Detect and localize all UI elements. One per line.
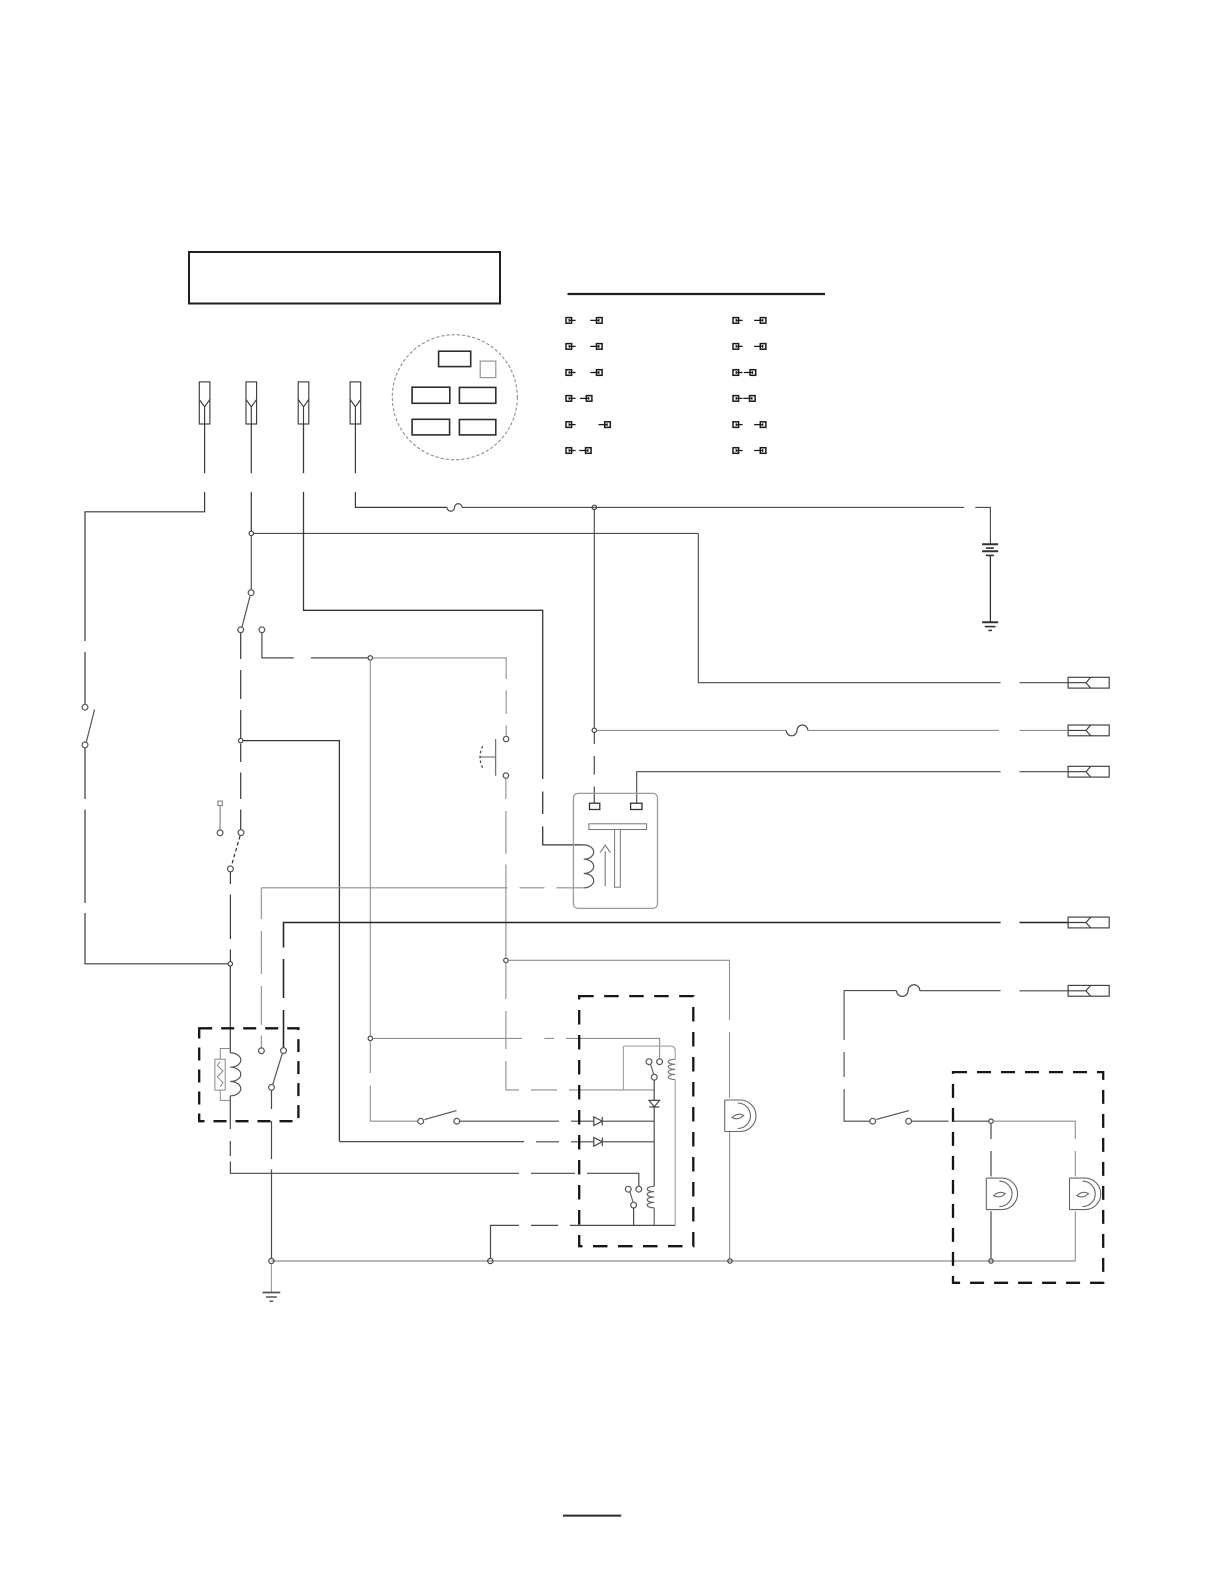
node start row xyxy=(368,656,372,660)
wire tee down to left lamp xyxy=(990,1123,992,1176)
node ground bus module xyxy=(488,1258,493,1263)
hourmeter lamp LAMP3 xyxy=(725,1100,756,1132)
relay RLY1 coil xyxy=(623,1046,675,1225)
battery BAT xyxy=(982,544,998,622)
wire riser to J1 xyxy=(698,533,1068,682)
node ground bus lamp xyxy=(989,1259,993,1263)
legend row 1 left terminal pair xyxy=(566,318,602,324)
wire hourmeter feed run xyxy=(508,960,729,1098)
diode D3 vertical xyxy=(649,1100,660,1107)
wire tap down to node J2 feed xyxy=(593,510,595,728)
wire pushbutton bottom down to hourmeter node xyxy=(505,778,507,957)
legend row 1 right terminal pair xyxy=(733,318,766,324)
wire left lamp to ground bus xyxy=(990,1211,992,1259)
legend row 4 left terminal pair xyxy=(566,396,592,402)
wire start row to pushbutton xyxy=(373,658,507,736)
connector pin CN3 xyxy=(298,382,309,424)
relay RLY2 coil xyxy=(647,1186,654,1225)
wire CB3 to headlamp switch xyxy=(844,991,896,1122)
legend row 5 right terminal pair xyxy=(733,422,766,428)
relay RLY2 contacts xyxy=(625,1186,641,1225)
solenoid coil xyxy=(584,845,594,888)
wire headlamp feed from J5 xyxy=(920,990,1068,992)
wire D2 to module junction xyxy=(602,1141,654,1143)
legend row 6 left terminal pair xyxy=(566,448,591,454)
solenoid motion arrow xyxy=(600,845,610,886)
connector pin CN4 xyxy=(350,382,361,424)
ground bus xyxy=(271,1260,1075,1262)
wire J3 run to solenoid right terminal xyxy=(637,772,1068,804)
node SW2 branch xyxy=(239,738,243,742)
PTO switch SW2 xyxy=(238,590,265,633)
legend row 5 left terminal pair xyxy=(566,422,610,428)
ignition switch terminal cavity B xyxy=(439,351,471,366)
start pushbutton PB xyxy=(480,736,509,778)
ground battery xyxy=(982,622,998,630)
connector terminal J4 xyxy=(1068,917,1109,928)
wire CN3 down-right to starter solenoid coil xyxy=(304,424,584,845)
diode D2 xyxy=(594,1138,603,1147)
seat switch SW4 xyxy=(418,1111,460,1125)
title box xyxy=(189,252,500,304)
legend row 2 left terminal pair xyxy=(566,344,602,350)
connector terminal J5 xyxy=(1068,985,1109,996)
node starter feed tap xyxy=(592,505,596,509)
page number underline xyxy=(563,1515,621,1517)
wire CN2 down to node xyxy=(250,424,252,531)
wire hourmeter to ground bus xyxy=(729,1132,731,1259)
diode D1 xyxy=(594,1117,603,1126)
node interlock feed xyxy=(368,1036,372,1040)
ground chassis xyxy=(263,1264,281,1302)
ignition switch terminal cavity L xyxy=(412,387,450,403)
relay RLY1 contacts xyxy=(646,1059,662,1080)
wire SW2 top contact feed from circle to start row xyxy=(262,633,368,658)
wire SW3 common down to bus node xyxy=(229,872,231,962)
wire node into module relay feed xyxy=(373,1038,660,1058)
fuel solenoid coil xyxy=(230,1053,241,1096)
wire solenoid coil low side run xyxy=(261,888,583,1048)
headlamp switch SW6 xyxy=(870,1111,912,1125)
wire run to J4 xyxy=(284,923,1069,1048)
wire tee to right lamp xyxy=(993,1121,1075,1176)
changeover switch SW3 xyxy=(217,801,244,872)
legend row 2 right terminal pair xyxy=(733,344,766,350)
circuit breaker CB3 xyxy=(897,985,920,997)
node ground bus left xyxy=(269,1258,274,1263)
connector terminal J3 xyxy=(1068,766,1109,777)
ignition switch connector circle xyxy=(392,335,517,460)
node fuel feed xyxy=(228,962,232,966)
legend row 3 right terminal pair xyxy=(733,370,756,376)
wire J2 run xyxy=(597,729,787,731)
solenoid plunger bar xyxy=(589,824,647,830)
headlamp box xyxy=(953,1072,1103,1283)
wire node down to seat switch xyxy=(370,1041,418,1122)
solenoid terminal S xyxy=(590,803,600,809)
circuit breaker CB1 xyxy=(447,504,462,512)
wire D1 to module junction xyxy=(602,1120,654,1122)
wire node to right riser xyxy=(254,532,699,534)
wire CN4 down-right battery feed xyxy=(355,424,447,507)
wire CB1 to battery xyxy=(462,507,990,544)
solenoid plunger stem xyxy=(615,830,621,888)
legend row 4 right terminal pair xyxy=(733,396,755,402)
legend row 6 right terminal pair xyxy=(733,448,766,454)
brake switch SW1 xyxy=(82,704,95,748)
wire D3 to relay RLY2 coil xyxy=(653,1107,655,1186)
wire node down to solenoid terminal xyxy=(593,733,595,804)
circuit breaker CB2 xyxy=(786,725,808,736)
wire node down to changeover switch SW3 xyxy=(240,744,242,830)
ignition switch terminal cavity M xyxy=(459,387,495,403)
interlock module box xyxy=(579,996,693,1246)
fuel solenoid resistor xyxy=(215,1049,230,1101)
fuel box switch SW5 xyxy=(259,1048,287,1091)
wire node down into module crank feed xyxy=(506,963,654,1090)
wire RLY1 armature to diode chain xyxy=(653,1080,655,1100)
ignition switch terminal cavity S xyxy=(412,419,450,435)
wire seat switch to diode D1 xyxy=(460,1120,594,1122)
legend heading rule xyxy=(568,293,826,295)
ignition switch terminal cavity G xyxy=(459,420,495,435)
wire brake switch to lower bus xyxy=(85,748,228,964)
wire fuel switch common to ground node xyxy=(271,1090,273,1258)
wire branch to dark riser x339 xyxy=(243,741,340,1142)
wire headlamp switch to lamps xyxy=(912,1120,989,1122)
wire right lamp to ground bus xyxy=(1074,1211,1076,1261)
fuel solenoid box xyxy=(199,1028,298,1121)
connector pin CN1 xyxy=(199,382,210,424)
node ground bus hourmeter xyxy=(728,1259,732,1263)
node J2 feed xyxy=(592,728,596,732)
wire node down to switch SW2 xyxy=(250,536,252,590)
wire SW2 lower column xyxy=(240,633,242,738)
wire x339 riser to diode D2 xyxy=(339,1141,593,1143)
node key feed xyxy=(249,531,253,535)
wire module ground leg xyxy=(491,1225,676,1258)
wire CN1 down-left to interlock switch column xyxy=(85,424,205,704)
connector terminal J1 xyxy=(1068,677,1109,688)
wire fuel coil low side to module relay2 xyxy=(230,1096,639,1187)
headlamp LAMP2 xyxy=(1070,1178,1101,1210)
node lamp tee xyxy=(989,1119,993,1123)
wire CB2 to J2 xyxy=(808,729,1068,731)
headlamp LAMP1 xyxy=(986,1178,1017,1210)
starter solenoid SOL xyxy=(573,793,657,908)
node hourmeter feed xyxy=(504,958,508,962)
wire node down into fuel solenoid box xyxy=(229,966,231,1053)
solenoid terminal I xyxy=(631,803,642,809)
wire interlock column x370 xyxy=(369,660,371,1036)
connector pin CN2 xyxy=(246,382,257,424)
legend row 3 left terminal pair xyxy=(566,370,602,376)
ignition switch terminal cavity A xyxy=(480,361,496,378)
connector terminal J2 xyxy=(1068,725,1109,736)
